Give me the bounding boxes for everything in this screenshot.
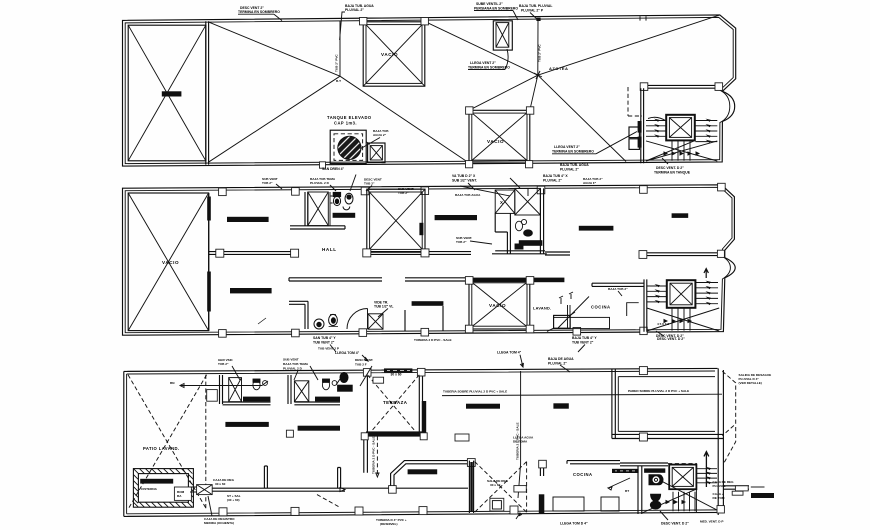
svg-text:CISTERNA: CISTERNA	[141, 487, 158, 491]
top wall tab d	[421, 187, 429, 195]
outer wall top/left/bottom	[124, 368, 723, 516]
bath1 duct X-box	[229, 378, 242, 402]
outer wall outline	[123, 15, 736, 166]
sala dashed X	[475, 462, 527, 513]
svg-text:TUB 2" PVC: TUB 2" PVC	[335, 54, 339, 72]
top wall tab c	[361, 187, 369, 195]
top callout baja der	[548, 357, 574, 366]
svg-text:HALL: HALL	[322, 247, 337, 252]
closet L wall	[264, 466, 267, 489]
pipe flags	[559, 292, 573, 304]
sofa wall lower mid	[405, 306, 443, 331]
svg-text:TERMINA EN SOMBRERO: TERMINA EN SOMBRERO	[238, 10, 280, 14]
room top tab	[639, 367, 647, 375]
svg-text:(DESNIVEL): (DESNIVEL)	[380, 522, 398, 526]
right room bed bar a	[579, 226, 614, 231]
cisterna hatched walls	[133, 469, 193, 508]
right flight treads	[696, 121, 718, 142]
terraza left wall	[364, 374, 368, 473]
stair notch wall	[644, 85, 719, 88]
divider wall rooms 1-2	[288, 375, 291, 404]
svg-text:TUB 2": TUB 2"	[218, 362, 229, 366]
mid top callout 2	[310, 177, 336, 185]
sala tab right	[467, 459, 475, 467]
right flight tick arrows	[706, 119, 711, 143]
divider tab left	[216, 249, 224, 257]
svg-text:COCINA: COCINA	[591, 305, 611, 310]
bottom edge tab small	[320, 162, 326, 168]
callout baja tub right	[519, 4, 552, 20]
svg-text:AGUA 2": AGUA 2"	[373, 133, 387, 137]
svg-text:TUBERIA 2 D PVC - SALE: TUBERIA 2 D PVC - SALE	[372, 436, 376, 474]
bottom stair left wall	[638, 466, 642, 515]
svg-text:VACIO: VACIO	[381, 52, 398, 57]
lower bath small X-box	[368, 314, 383, 329]
bedroom bed bar 2	[230, 288, 272, 293]
tab box2 right	[526, 107, 533, 114]
lower rooms top wall left	[289, 278, 382, 281]
mid top callout 3	[364, 178, 382, 186]
svg-text:LAVAND.: LAVAND.	[533, 307, 551, 311]
mid lower flight risers	[672, 308, 690, 331]
svg-text:AZOTEA: AZOTEA	[549, 66, 568, 71]
viene toma label	[374, 301, 394, 317]
wall L cocina right	[627, 303, 639, 316]
small stair rooms	[629, 127, 639, 138]
sala right thick wall	[469, 461, 473, 513]
svg-text:B.T: B.T	[336, 79, 341, 83]
svg-text:4 5 6 7 8: 4 5 6 7 8	[657, 322, 669, 326]
llave label	[513, 436, 534, 444]
top-right room bottom wall	[612, 434, 724, 438]
bar terraza-room b	[553, 403, 568, 408]
pipe line horizontal	[442, 394, 722, 395]
mid leader lines top	[276, 175, 510, 197]
svg-text:LLEGA TOM D 4": LLEGA TOM D 4"	[560, 522, 588, 526]
bath1 toilet	[253, 379, 268, 390]
entry callout 2	[713, 492, 725, 500]
inner wall line	[125, 17, 733, 163]
tanque elevado outer box	[330, 130, 366, 163]
svg-text:(VER DETALLE): (VER DETALLE)	[739, 381, 762, 385]
hall lower wall	[290, 226, 345, 229]
svg-text:AGUA F": AGUA F"	[583, 181, 597, 185]
vacio3 tab tl	[465, 277, 473, 285]
stair cut diagonal	[646, 141, 717, 161]
svg-text:BAJA TUB. PLUVIAL: BAJA TUB. PLUVIAL	[519, 4, 552, 8]
bath2 bottom wall	[294, 402, 340, 405]
corridor wall	[212, 488, 468, 491]
mid interior callout	[455, 193, 481, 197]
below-plan callout cluster 5	[560, 163, 589, 172]
left bay wall	[128, 25, 206, 161]
svg-text:PATIO LAVAND.: PATIO LAVAND.	[143, 446, 180, 451]
svg-text:PERSIANA EN SOMBRERO: PERSIANA EN SOMBRERO	[474, 7, 518, 11]
svg-text:SUB 1/2" VENT.: SUB 1/2" VENT.	[452, 179, 477, 183]
bottom wall tab c	[359, 329, 367, 337]
svg-text:BAJA DE AGUA: BAJA DE AGUA	[548, 357, 574, 361]
bath1 counter bar	[333, 213, 356, 218]
svg-text:BA: BA	[177, 494, 182, 498]
sala wall with chamfer	[391, 461, 468, 489]
divider tab right	[291, 249, 299, 257]
svg-text:BAJA TUB 4" Y: BAJA TUB 4" Y	[572, 336, 597, 340]
middle stair left wall	[644, 279, 647, 331]
sub vent text bath	[398, 187, 414, 195]
terraza bottom end tabs	[361, 433, 368, 440]
svg-text:PLUVIAL 2 D: PLUVIAL 2 D	[283, 367, 303, 371]
patio dashed vertical	[205, 375, 207, 510]
mid right tick arrows	[706, 281, 711, 305]
svg-text:TUB VENT 2 P: TUB VENT 2 P	[318, 347, 339, 351]
sube curve	[648, 117, 666, 121]
notch wall tab left	[640, 83, 648, 91]
bottom wall tab c2	[355, 507, 363, 515]
svg-text:TUBERIA SOBRE PLUVIAL 2 D PV: TUBERIA SOBRE PLUVIAL 2 D PVC + SALE	[443, 390, 507, 394]
callout baja tub pluvial	[340, 4, 375, 40]
terraza bottom thick wall	[366, 431, 423, 436]
cocina black bar (text strip)	[612, 469, 639, 473]
bath1 counter bar	[243, 397, 270, 402]
inner wall lines	[127, 371, 720, 514]
cocina counter	[554, 317, 610, 328]
outer wall outline	[123, 185, 736, 335]
bottom right tick arrows	[706, 467, 711, 484]
cocina top wall	[567, 461, 620, 464]
svg-text:VACIO: VACIO	[487, 139, 504, 144]
svg-text:PLUVIAL 2 D: PLUVIAL 2 D	[310, 181, 330, 185]
bottom sube arrow	[704, 452, 709, 487]
bomba box	[174, 487, 191, 500]
terraza right tab	[417, 368, 425, 376]
bottom callout 4	[660, 511, 723, 526]
dashed shaft projection	[628, 87, 642, 116]
bath1 fixtures	[331, 192, 353, 209]
below mid callout C	[656, 334, 684, 338]
svg-text:LLEGA VENT 2": LLEGA VENT 2"	[554, 145, 580, 149]
inner wall line	[125, 187, 732, 332]
small X-box beside tanque	[368, 143, 385, 163]
top callout gervsic	[218, 358, 234, 366]
notch wall tab left	[639, 251, 647, 259]
bath2 lavatory cluster	[336, 373, 352, 392]
leader lines top	[232, 365, 570, 386]
interior wall room divider	[209, 252, 299, 255]
mid lower arrow row	[664, 319, 693, 323]
dashed door swing	[317, 495, 340, 508]
callout baja tub agua tanque	[360, 129, 389, 149]
svg-text:DESC VENT. D 2": DESC VENT. D 2"	[661, 522, 689, 526]
mid top callout 5	[583, 177, 603, 185]
bath2 bottom wall	[492, 251, 547, 254]
corner tab bottom right	[717, 506, 724, 513]
left bay X brace	[128, 193, 208, 331]
svg-text:TUB 2" PVC: TUB 2" PVC	[538, 44, 542, 62]
lower bath L-wall	[289, 301, 308, 329]
svg-text:PLUVIAL: PLUVIAL	[713, 484, 726, 488]
bar terraza-room a	[466, 404, 500, 409]
top wall tab a	[219, 188, 227, 196]
tub vent high	[318, 347, 339, 351]
bottom stair risers below	[673, 489, 696, 512]
svg-text:BAJA TUB TEMA: BAJA TUB TEMA	[283, 362, 309, 366]
st sal label	[227, 494, 241, 502]
sofa bar	[408, 469, 438, 474]
corridor arrow	[340, 488, 345, 492]
svg-text:TERRAZA: TERRAZA	[383, 400, 408, 405]
entry lines	[724, 486, 749, 489]
bath2 counter bar	[315, 397, 340, 402]
bath1 bottom wall	[223, 402, 271, 405]
vacio3 tab bl	[465, 325, 473, 333]
lower flight arrow row	[664, 151, 701, 155]
top callout llega right	[497, 351, 523, 368]
bath2 counter bar	[519, 240, 543, 246]
terraza right wall	[419, 374, 422, 436]
tab box1 left	[360, 18, 367, 25]
cocina counter boxes	[553, 497, 584, 511]
bottom lower arrow row	[666, 500, 687, 504]
vertical pipe line	[518, 371, 521, 498]
svg-text:DESC VENT. D 2": DESC VENT. D 2"	[657, 337, 685, 341]
svg-text:(30 + 60): (30 + 60)	[227, 498, 239, 502]
svg-text:PLUVIAL 2" P: PLUVIAL 2" P	[521, 9, 544, 13]
svg-text:SUB VENT: SUB VENT	[283, 358, 299, 362]
entry black bar	[751, 493, 774, 498]
middle sube arrow	[704, 269, 708, 278]
right wall solid	[718, 368, 723, 515]
bath2 duct X-box	[294, 381, 308, 402]
stair room jambs	[638, 121, 642, 133]
entry box	[735, 486, 748, 491]
left flight tick arrows	[654, 119, 659, 138]
vacio box 1 X	[363, 22, 425, 86]
tanque dashed square	[334, 134, 363, 161]
lower bath fixtures	[258, 314, 338, 329]
svg-text:MEDIDA (OCHENTA): MEDIDA (OCHENTA)	[204, 521, 234, 525]
callout desc vent	[238, 6, 282, 21]
svg-text:TUB 2": TUB 2"	[456, 240, 467, 244]
patio wall box	[207, 390, 218, 402]
terraza dashed X	[367, 375, 419, 436]
bottom wall tab d	[510, 506, 518, 514]
callout sube ventil	[474, 2, 518, 20]
washer standpipe	[568, 305, 571, 328]
svg-text:BN: BN	[170, 381, 175, 385]
bath1 duct X	[308, 192, 329, 226]
svg-text:DESC VENT. D 2": DESC VENT. D 2"	[656, 166, 684, 170]
svg-text:TANQUE ELEVADO: TANQUE ELEVADO	[327, 115, 372, 120]
stair left wall	[641, 88, 644, 163]
caja box terraza	[373, 377, 384, 383]
bed bar 3	[435, 215, 477, 220]
bed bar room1	[225, 422, 268, 427]
left bay X brace	[128, 25, 206, 161]
elevator shaft	[666, 115, 695, 141]
svg-text:TUB 2": TUB 2"	[398, 191, 409, 195]
vacio box 2	[469, 110, 530, 163]
middle elevator shaft	[667, 280, 696, 308]
svg-text:BT: BT	[625, 489, 629, 493]
svg-text:CAP 1m3.: CAP 1m3.	[334, 121, 357, 126]
svg-text:BAJA TUB. AGUA: BAJA TUB. AGUA	[560, 163, 589, 167]
terraza top tabs	[363, 369, 371, 377]
door swing arc	[347, 309, 368, 330]
leader to cocina	[558, 297, 589, 329]
bottom callout 3	[516, 513, 588, 526]
party wall black segment lower	[207, 272, 211, 312]
top edge tick	[640, 16, 646, 20]
svg-text:COCINA: COCINA	[573, 472, 593, 477]
bottom callout 1	[204, 496, 235, 525]
divider tab	[286, 430, 293, 437]
below mid callout B	[572, 336, 597, 352]
tab box2 left	[466, 107, 473, 114]
tanque hatch circle	[334, 130, 366, 164]
svg-text:SUBE VENTIL 2": SUBE VENTIL 2"	[476, 2, 503, 6]
mid left tick arrows	[655, 284, 660, 303]
svg-text:TERMINA EN TANQUE: TERMINA EN TANQUE	[654, 171, 691, 175]
roof hip A rays	[209, 21, 469, 163]
svg-text:TERMINA EN SOMBRERO: TERMINA EN SOMBRERO	[552, 150, 594, 154]
top wall tab b	[292, 188, 300, 196]
wc toilet	[649, 475, 663, 509]
stair wall bottom tab	[640, 327, 647, 334]
bath2 fixtures	[515, 219, 532, 249]
below mid callout A2	[313, 336, 336, 352]
mid stair bottom callout	[656, 331, 685, 341]
cocina leader	[608, 287, 628, 296]
svg-text:30 x 60: 30 x 60	[215, 482, 226, 486]
svg-text:SAN DREN 4": SAN DREN 4"	[322, 167, 345, 171]
top callout subvent cluster	[283, 358, 309, 371]
caja de registro box	[197, 485, 213, 495]
bottom right flight treads	[696, 469, 717, 483]
door white box	[514, 486, 526, 492]
cocina wall	[592, 283, 644, 286]
notch wall tab right	[715, 83, 723, 91]
svg-text:DE TOMA: DE TOMA	[513, 439, 528, 443]
svg-text:PLUVIAL 2": PLUVIAL 2"	[543, 179, 562, 183]
stair top dashed	[668, 463, 697, 465]
vacio box 1	[363, 22, 425, 86]
corridor wall segment	[545, 252, 570, 255]
svg-text:BAJA TUB 4" X: BAJA TUB 4" X	[543, 174, 568, 178]
middle stair cut diagonals	[647, 308, 719, 331]
caja label	[213, 478, 235, 486]
svg-text:30 x 60: 30 x 60	[490, 483, 501, 487]
mid left flight treads	[647, 286, 667, 302]
svg-text:LLEGA TOM 4": LLEGA TOM 4"	[335, 351, 360, 355]
bath1 left wall	[305, 192, 308, 226]
bottom elevator shaft	[669, 465, 696, 490]
cisterna water bar	[140, 479, 173, 484]
pipe dashed vertical + text	[376, 436, 378, 477]
svg-text:PARED SOBRE PLUVIAL 2 D PVC: PARED SOBRE PLUVIAL 2 D PVC + SALE	[628, 389, 689, 393]
room inner line	[618, 377, 715, 432]
svg-text:PLUVIAL 2": PLUVIAL 2"	[560, 168, 579, 172]
svg-text:PLUVIAL 2": PLUVIAL 2"	[345, 8, 364, 12]
hip point B tick	[534, 71, 542, 79]
vacio bottom tab r	[421, 249, 429, 257]
baja x tema bold strip	[384, 368, 412, 376]
below-plan callout cluster 3	[452, 174, 477, 183]
vent box	[493, 21, 512, 50]
party wall line	[208, 193, 210, 331]
mid bath2 callout	[456, 236, 492, 244]
bottom wall tab b	[292, 329, 300, 337]
center vacio dark jamb	[419, 223, 423, 235]
bed bar 4	[412, 301, 444, 306]
black jamb	[539, 494, 545, 513]
svg-text:BAJA TUB AGUA: BAJA TUB AGUA	[455, 193, 481, 197]
salida desague callout	[739, 373, 772, 385]
bottom wall tab b	[291, 507, 299, 515]
wall tab right of sala	[539, 460, 547, 468]
bottom wall tab d	[421, 328, 429, 336]
stair-side black bar	[644, 468, 665, 472]
washer box	[554, 315, 571, 328]
left bay wall	[128, 193, 208, 331]
svg-text:30 x 60: 30 x 60	[391, 372, 402, 376]
svg-text:DESC VENT.: DESC VENT.	[355, 358, 373, 362]
svg-text:TUB VENT 2": TUB VENT 2"	[313, 341, 335, 345]
right room bed bar b	[672, 213, 689, 218]
svg-text:TUB VENT 2": TUB VENT 2"	[572, 341, 594, 345]
callout llega vent low	[552, 132, 637, 154]
mid vent line	[510, 178, 528, 196]
svg-text:PLUVIAL 2": PLUVIAL 2"	[548, 362, 567, 366]
svg-text:DE TOM: DE TOM	[713, 496, 725, 500]
mid stair label	[657, 322, 669, 326]
top wall tab e	[537, 186, 545, 194]
llega tom left	[335, 351, 368, 361]
tab box1 right	[421, 18, 428, 25]
san dren callout	[322, 167, 345, 171]
corridor end wall	[338, 468, 341, 489]
party wall	[206, 21, 209, 164]
svg-text:MED. VENT. D P: MED. VENT. D P	[700, 520, 723, 524]
desc vent callout	[355, 358, 373, 367]
tab box2 bottom-right	[526, 161, 533, 168]
svg-text:BAJA TUB 2": BAJA TUB 2"	[608, 287, 628, 291]
terraza right jamb black	[422, 401, 426, 434]
stair top wall	[620, 463, 668, 466]
svg-text:VACIO: VACIO	[162, 260, 179, 265]
bottom wall tab e	[573, 328, 581, 336]
bottom stair diagonal	[642, 481, 723, 513]
svg-text:SAN TUB 4" Y: SAN TUB 4" Y	[313, 336, 336, 340]
callout llega vent mid	[468, 49, 510, 70]
vacio3 tab tr	[526, 277, 534, 285]
svg-text:TUB 2": TUB 2"	[262, 181, 273, 185]
svg-text:VA TUB D 2" X: VA TUB D 2" X	[452, 174, 476, 178]
mid top callout 1	[262, 177, 278, 185]
below mid callout A	[414, 338, 452, 342]
tanque label	[327, 115, 372, 126]
roof hip B rays	[425, 15, 720, 162]
bath2 block	[495, 188, 543, 253]
svg-text:TERMINA EN SOMBRERO: TERMINA EN SOMBRERO	[468, 66, 510, 70]
bottom wall tab a	[219, 330, 227, 338]
bottom callout 2	[376, 518, 407, 526]
lower flight risers vertical	[672, 141, 690, 161]
cocina leader	[608, 478, 630, 490]
below-plan callout cluster 4	[543, 174, 568, 183]
leader into patio	[180, 381, 268, 388]
svg-text:VACIO: VACIO	[489, 303, 506, 308]
sala reg label	[487, 479, 509, 487]
